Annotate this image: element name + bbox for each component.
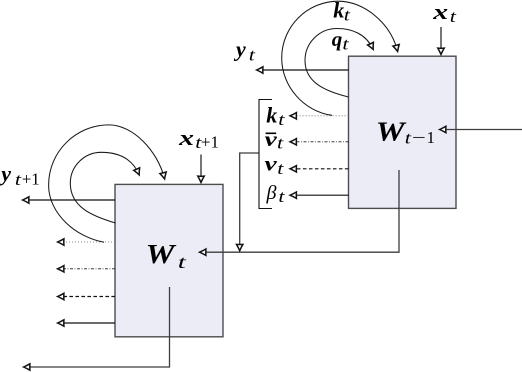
svg-text:W: W (146, 239, 178, 269)
recurrent arc (outer loop of W(t)) (49, 125, 165, 242)
bracket for W(t-1) outputs (259, 100, 272, 209)
label y_t (233, 37, 255, 65)
label q_t (arc) (332, 27, 349, 54)
svg-text:y: y (0, 161, 11, 186)
label W(t) (146, 239, 188, 272)
output arrow vbar_t (densely dashed) (291, 141, 349, 143)
output arrow 1 of W(t) (dash-dotted) (58, 241, 115, 243)
label k_t (arc) (333, 0, 350, 25)
output arrow 3 of W(t) (dashed) (58, 296, 115, 298)
recurrent arc k_t (outer loop of W(t-1)) (282, 1, 398, 115)
svg-text:−: − (412, 128, 426, 147)
svg-text:t: t (405, 129, 412, 148)
label y_{t+1} (0, 161, 40, 189)
svg-text:+1: +1 (22, 170, 40, 189)
svg-text:x: x (432, 0, 448, 24)
svg-text:t: t (450, 8, 457, 27)
label beta_t (266, 182, 286, 206)
svg-text:k: k (333, 0, 344, 23)
svg-text:x: x (178, 125, 194, 149)
svg-text:W: W (376, 117, 408, 147)
output arrow 2 of W(t) (densely dashed) (58, 268, 115, 270)
input arrow x_t (440, 27, 442, 54)
bar over v (266, 132, 277, 134)
svg-text:t: t (344, 6, 351, 25)
connector W(t-1) to W(t) (200, 170, 399, 252)
block W(t) (115, 184, 223, 336)
svg-text:β: β (266, 182, 277, 204)
output arrow k_t (dash-dotted) (291, 115, 349, 117)
output arrow 4 of W(t) (solid) (58, 322, 115, 324)
label W(t-1) (376, 117, 435, 148)
label x_t (432, 0, 456, 27)
svg-text:k: k (266, 103, 277, 128)
svg-text:t: t (249, 46, 256, 65)
label v_t (265, 152, 285, 178)
svg-text:t: t (278, 110, 285, 129)
block W(t-1) (349, 56, 457, 208)
svg-text:v: v (265, 152, 278, 175)
input arrow x_{t+1} (200, 155, 202, 183)
output arrow beta_t (solid) (291, 194, 349, 196)
recurrent arc q_t (inner loop of W(t-1)) (305, 29, 373, 98)
svg-text:+1: +1 (201, 133, 219, 152)
label k_t (266, 103, 285, 129)
output arrow y_{t+1} (23, 199, 115, 201)
svg-text:t: t (277, 134, 284, 153)
svg-text:t: t (278, 187, 285, 206)
svg-text:t: t (277, 159, 284, 178)
recurrent arc (inner loop of W(t)) (70, 152, 139, 223)
label vbar_t (265, 128, 284, 153)
connector W(t) to next unit (24, 287, 170, 367)
output arrow v_t (dashed) (291, 168, 349, 170)
svg-text:t: t (342, 35, 349, 54)
svg-text:q: q (332, 27, 343, 51)
output arrow y_t (257, 69, 349, 71)
svg-text:y: y (233, 37, 246, 62)
svg-text:1: 1 (427, 128, 436, 147)
svg-text:t: t (15, 170, 22, 189)
label x_{t+1} (178, 125, 219, 152)
bracket connector down to recurrent line (240, 153, 259, 250)
connector from previous unit into W(t-1) (440, 129, 522, 131)
